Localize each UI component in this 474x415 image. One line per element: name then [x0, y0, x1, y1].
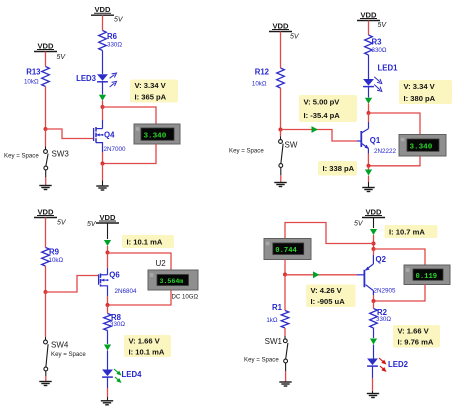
- svg-text:V: 1.66 V: V: 1.66 V: [398, 326, 430, 335]
- transistor Q2 2N2905 (PNP BJT): [364, 255, 396, 295]
- power wire VDD branch to R1 via base: [284, 275, 286, 311]
- voltmeter display 0.744: [264, 239, 311, 260]
- switch SW4: [44, 340, 87, 371]
- current probe arrow (R8 branch): [104, 345, 111, 351]
- switch SW: [229, 140, 298, 168]
- wire collector node to R2: [373, 301, 375, 309]
- svg-text:V: 5.00 pV: V: 5.00 pV: [304, 98, 341, 107]
- svg-text:2N2905: 2N2905: [374, 288, 397, 295]
- LED LED1: [363, 64, 398, 92]
- wire SW4 to ground: [45, 371, 47, 381]
- current probe arrow (LED1 branch): [365, 98, 372, 104]
- svg-text:330Ω: 330Ω: [107, 41, 122, 48]
- svg-text:I: -905 uA: I: -905 uA: [311, 297, 346, 306]
- wire base node to Q2 base: [285, 274, 364, 276]
- transistor Q1 2N2222 (NPN BJT): [361, 129, 396, 155]
- probe readout V/I (Q2 base): [306, 285, 356, 308]
- svg-text:I: 338 pA: I: 338 pA: [323, 164, 355, 173]
- svg-text:I: 10.1 mA: I: 10.1 mA: [129, 347, 165, 356]
- svg-text:SW3: SW3: [52, 150, 70, 159]
- wire emitter node to Q2 emitter: [372, 249, 374, 264]
- svg-text:SW: SW: [285, 141, 298, 150]
- svg-text:LED2: LED2: [388, 360, 409, 369]
- svg-text:Q1: Q1: [370, 136, 381, 145]
- wire VDD to probe: [373, 218, 375, 229]
- svg-text:5V: 5V: [114, 17, 124, 24]
- wire R8 to probe: [107, 331, 109, 345]
- ground (below SW4): [39, 382, 51, 386]
- wire collector node to multimeter (top): [369, 113, 421, 135]
- wire R2 to probe: [373, 328, 375, 338]
- wire R6 to LED3: [102, 51, 104, 75]
- wire SW3 to ground: [45, 170, 47, 185]
- node emitter junction B: [372, 247, 376, 251]
- svg-text:5V: 5V: [354, 221, 364, 228]
- svg-text:VDD: VDD: [94, 5, 111, 14]
- node Q6 source junction: [106, 303, 110, 307]
- wire VDD to R13: [45, 52, 47, 67]
- svg-text:Q4: Q4: [104, 131, 115, 140]
- wire Q1 emitter to emitter node: [367, 154, 369, 166]
- wire R9 to gate node: [45, 266, 47, 292]
- svg-text:R9: R9: [49, 248, 60, 257]
- svg-text:10kΩ: 10kΩ: [252, 81, 267, 88]
- power VDD (top-left branch, R6/LED3/Q4): [91, 5, 124, 24]
- svg-text:I: 365 pA: I: 365 pA: [135, 93, 167, 102]
- current probe arrow (Q1 base wire): [312, 126, 318, 133]
- svg-text:VDD: VDD: [37, 41, 54, 50]
- current probe arrow (Q2 base wire): [313, 271, 319, 278]
- svg-text:0.119: 0.119: [416, 273, 438, 281]
- svg-text:2N7000: 2N7000: [104, 146, 127, 153]
- current probe arrow (LED3 branch): [99, 95, 106, 101]
- svg-text:330Ω: 330Ω: [372, 47, 387, 54]
- svg-text:Q2: Q2: [376, 255, 387, 264]
- probe readout V/I (R2 branch): [393, 325, 440, 348]
- wire Q2 collector to collector node: [373, 295, 375, 301]
- node Q4 source junction: [101, 162, 105, 166]
- wire probe to LED2: [373, 345, 375, 359]
- svg-text:5V: 5V: [290, 34, 300, 41]
- svg-text:3.340: 3.340: [410, 143, 433, 151]
- wire SW to ground: [280, 168, 282, 183]
- wire VDD to R9: [45, 218, 47, 248]
- svg-text:5V: 5V: [57, 220, 67, 227]
- svg-text:Key = Space: Key = Space: [244, 357, 279, 364]
- wire LED4 to ground: [107, 377, 109, 400]
- resistor R12 10kOhm: [252, 68, 284, 89]
- wire R13 to gate node: [45, 87, 47, 130]
- wire Q4 source to source node: [102, 152, 104, 164]
- switch SW1: [244, 337, 288, 364]
- wire gate node to Q6 gate: [46, 276, 99, 293]
- wire R1 to SW1: [284, 328, 286, 339]
- transistor Q6 2N6804 (P-MOSFET): [99, 271, 137, 296]
- wire probe to LED4: [107, 351, 109, 370]
- wire emitter node to ground: [368, 166, 370, 187]
- wire probe to drain node: [102, 101, 104, 108]
- wire probe to emitter nodes: [373, 235, 375, 249]
- resistor R2 330Ohm: [370, 308, 392, 328]
- svg-text:I: 9.76 mA: I: 9.76 mA: [398, 338, 434, 347]
- resistor R6 330Ohm: [99, 31, 123, 51]
- node emitter junction A: [372, 242, 376, 246]
- power VDD (top-right branch, R12/SW): [269, 21, 300, 40]
- probe readout I (Q2 emitter): [385, 225, 438, 238]
- current probe arrow (Q1 emitter): [365, 170, 372, 176]
- wire voltmeter 0.744 to base node: [284, 260, 286, 275]
- wire LED1 to probe: [368, 87, 370, 98]
- node Q1 collector junction: [367, 111, 371, 115]
- svg-text:R12: R12: [255, 68, 270, 77]
- resistor R8 330Ohm: [104, 313, 126, 331]
- wire multimeter to emitter node: [369, 156, 421, 166]
- svg-text:V: 1.66 V: V: 1.66 V: [129, 336, 161, 345]
- ground (below LED2): [367, 394, 379, 398]
- probe readout I (Q1 emitter): [318, 161, 357, 176]
- switch SW3: [4, 150, 69, 170]
- current probe arrow (R2 branch): [370, 339, 377, 345]
- svg-text:LED4: LED4: [122, 370, 143, 379]
- wire node to SW4: [45, 292, 47, 340]
- voltmeter display 0.119: [404, 265, 450, 285]
- wire emitter node B to ammeter 0.119 (right loop): [374, 249, 426, 265]
- wire drain node to voltmeter U2 (top): [108, 253, 172, 270]
- ground (below LED4): [101, 401, 113, 405]
- svg-text:LED1: LED1: [378, 64, 399, 73]
- svg-text:1kΩ: 1kΩ: [266, 317, 278, 324]
- wire gate node to Q4 gate: [46, 129, 94, 139]
- svg-text:U2: U2: [156, 259, 167, 268]
- resistor R9 10kOhm: [42, 248, 64, 267]
- svg-text:R1: R1: [272, 303, 283, 312]
- svg-text:I: 10.1 mA: I: 10.1 mA: [127, 237, 163, 246]
- LED LED2: [367, 358, 408, 372]
- svg-text:0.744: 0.744: [275, 247, 297, 255]
- wire source node to ground: [102, 164, 104, 187]
- svg-text:VDD: VDD: [99, 213, 116, 222]
- resistor R13 10kOhm: [24, 67, 49, 87]
- svg-text:V: 3.34 V: V: 3.34 V: [404, 82, 436, 91]
- resistor R1 1kOhm: [266, 303, 288, 328]
- node Q4 drain junction: [101, 105, 105, 109]
- node Q2 base junction: [283, 273, 287, 277]
- wire Q6 source to source node: [107, 296, 109, 305]
- svg-text:Key = Space: Key = Space: [51, 351, 86, 358]
- node gate junction (R9/SW4/Q6 gate): [44, 290, 48, 294]
- svg-text:R3: R3: [372, 38, 383, 47]
- svg-text:I: -35.4 pA: I: -35.4 pA: [304, 111, 341, 120]
- wire LED3 to probe: [102, 82, 104, 95]
- svg-text:2N6804: 2N6804: [115, 288, 138, 295]
- svg-text:DC 10GΩ: DC 10GΩ: [172, 294, 199, 301]
- svg-text:330Ω: 330Ω: [376, 316, 391, 323]
- wire VDD to R12: [280, 32, 282, 69]
- power VDD (bottom-left branch, Q6/R8/LED4): [87, 213, 119, 228]
- power VDD (bottom-left branch, R9/SW4): [34, 207, 67, 226]
- svg-text:R6: R6: [107, 32, 118, 41]
- current probe arrow (Q2 emitter branch): [370, 229, 377, 235]
- svg-text:VDD: VDD: [37, 207, 54, 216]
- wire base node to Q1 base with probe: [281, 130, 361, 142]
- LED LED3: [76, 73, 116, 87]
- wire node to SW: [280, 130, 282, 140]
- ground (below SW1): [279, 382, 291, 386]
- LED LED4: [102, 369, 142, 383]
- svg-text:VDD: VDD: [365, 207, 382, 216]
- wire ammeter 0.119 to collector node: [374, 285, 426, 302]
- svg-text:VDD: VDD: [272, 21, 289, 30]
- svg-text:V: 3.34 V: V: 3.34 V: [135, 81, 167, 90]
- wire collector node to Q1 collector: [368, 113, 370, 129]
- wire voltmeter U2 to source node: [108, 290, 172, 305]
- wire drain node to Q6 drain: [107, 253, 109, 275]
- svg-text:Key = Space: Key = Space: [4, 153, 39, 160]
- svg-text:SW4: SW4: [51, 341, 69, 350]
- wire source node to R8: [107, 305, 109, 314]
- ground (below Q4): [96, 186, 108, 190]
- svg-text:3.340: 3.340: [144, 132, 167, 140]
- wire probe to drain node: [107, 246, 109, 253]
- wire VDD to R3: [368, 21, 370, 36]
- svg-text:5V: 5V: [378, 22, 388, 29]
- svg-text:330Ω: 330Ω: [110, 321, 125, 328]
- wire drain node to multimeter XMM (top): [103, 107, 157, 124]
- wire VDD to R6: [102, 15, 104, 30]
- wire SW1 to ground: [285, 363, 287, 382]
- node Q2 collector junction: [372, 299, 376, 303]
- svg-text:I: 10.7 mA: I: 10.7 mA: [389, 227, 425, 236]
- svg-text:3.564m: 3.564m: [160, 278, 184, 285]
- wire emitter node to voltmeter 0.744 (left loop): [285, 223, 374, 244]
- svg-text:SW1: SW1: [265, 337, 283, 346]
- power VDD (top-left branch, R13/SW3): [34, 41, 66, 61]
- svg-text:5V: 5V: [87, 221, 97, 228]
- wire VDD to probe: [107, 223, 109, 239]
- ground (below Q1): [362, 188, 374, 192]
- svg-text:5V: 5V: [57, 54, 67, 61]
- wire node to SW3: [45, 129, 47, 150]
- node Q6 drain junction: [106, 251, 110, 255]
- probe readout I (Q6 drain): [122, 235, 174, 248]
- power VDD (top-right branch, R3/LED1/Q1): [357, 10, 387, 29]
- node Q1 emitter junction: [367, 164, 371, 168]
- wire R12 to base node: [280, 88, 282, 130]
- svg-text:10kΩ: 10kΩ: [49, 257, 64, 264]
- voltmeter U2 display 3.564m: [148, 259, 199, 301]
- probe readout V/I (Q1 base): [299, 95, 357, 122]
- multimeter XMM4 display 3.340: [134, 124, 180, 144]
- wire LED2 to ground: [372, 366, 374, 393]
- svg-text:I: 380 pA: I: 380 pA: [404, 94, 436, 103]
- ground (below SW): [274, 183, 286, 187]
- svg-text:R13: R13: [26, 68, 41, 77]
- probe readout V/I (LED3 branch): [130, 80, 178, 103]
- svg-text:10kΩ: 10kΩ: [24, 79, 39, 86]
- wire probe to collector node: [368, 104, 370, 114]
- node base junction (R12/SW/Q1 base): [279, 128, 283, 132]
- wire R3 to LED1: [368, 55, 370, 79]
- probe readout V/I (R8 branch): [124, 335, 171, 357]
- svg-text:V: 4.26 V: V: 4.26 V: [311, 286, 343, 295]
- svg-text:Key = Space: Key = Space: [229, 148, 264, 155]
- svg-text:2N2222: 2N2222: [374, 148, 397, 155]
- transistor Q4 2N7000 (N-MOSFET): [94, 127, 126, 153]
- svg-text:Q6: Q6: [109, 271, 120, 280]
- svg-text:VDD: VDD: [360, 10, 377, 19]
- wire drain node to Q4 drain: [102, 107, 104, 129]
- node gate junction (R13/SW3/Q4 gate): [44, 127, 48, 131]
- svg-text:LED3: LED3: [76, 74, 97, 83]
- multimeter XMM1 display 3.340: [399, 135, 446, 157]
- probe readout V/I (LED1 branch): [399, 80, 452, 104]
- current probe arrow (Q6 drain branch): [104, 240, 111, 246]
- power VDD (bottom-right branch, Q2): [354, 207, 385, 227]
- wire multimeter to source node: [103, 144, 157, 164]
- resistor R3 330Ohm: [365, 35, 387, 55]
- ground (below SW3): [39, 186, 51, 190]
